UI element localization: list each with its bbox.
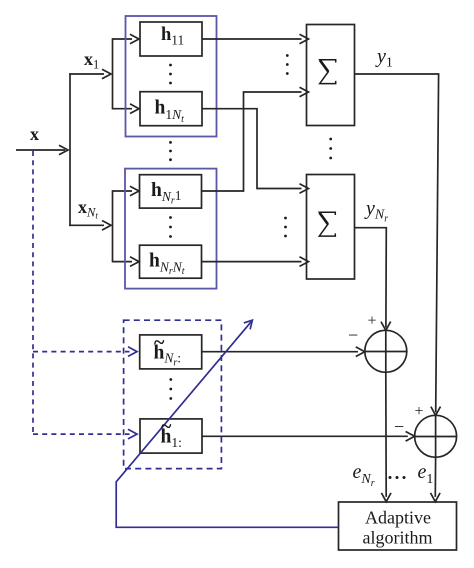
adaptive algorithm box: [339, 502, 457, 550]
wire x input: [16, 145, 68, 155]
svg-text:h11: h11: [161, 25, 184, 48]
svg-text:−: −: [394, 417, 404, 437]
filter h1Nt box: [140, 92, 202, 126]
wire into hNrNt: [113, 257, 140, 267]
label sigma 1: [320, 60, 336, 84]
dots sum2 inputs: [284, 217, 287, 238]
filter bank 2 frame (blue): [125, 169, 217, 289]
filter bank 1 frame (blue): [126, 16, 217, 137]
filter hNrNt box: [140, 245, 202, 278]
dots between htNr and ht1: [169, 378, 172, 400]
svg-text:yNr: yNr: [364, 198, 388, 225]
wire htNr to adder A1: [202, 347, 365, 357]
node x1 junction vertical: [112, 38, 114, 109]
svg-text:x: x: [30, 124, 39, 144]
wire hNr1 to sum1: [202, 87, 309, 191]
wire yNr output: [355, 228, 391, 331]
svg-text:e1: e1: [418, 461, 434, 487]
dots between sum1 and sum2: [329, 138, 332, 160]
svg-text:x1: x1: [84, 49, 99, 72]
dots sum1 inputs: [286, 54, 289, 75]
wire y1 output: [355, 74, 441, 415]
svg-text:hNr1: hNr1: [151, 180, 182, 207]
wire adder A2 to adaptive algorithm (e1): [431, 457, 441, 501]
filter ht1 box: [140, 419, 202, 453]
wire ht1 to adder A2: [202, 432, 415, 442]
adder A2 cross: [415, 415, 457, 457]
wire dashed into ht1: [33, 429, 137, 439]
wire into hNr1: [113, 186, 140, 196]
label sigma 2: [319, 212, 335, 236]
svg-text:eNr: eNr: [353, 461, 375, 489]
dots between h11 and h1Nt: [169, 64, 172, 85]
svg-text:algorithm: algorithm: [363, 528, 433, 548]
svg-text:hNr:: hNr:: [154, 343, 182, 369]
wire xNt branch: [69, 221, 111, 231]
svg-text:y1: y1: [375, 46, 393, 71]
svg-text:hNrNt: hNrNt: [149, 251, 185, 278]
adder A1 cross: [365, 330, 407, 372]
filter htNr box: [140, 335, 202, 369]
adder circle A2: [415, 415, 457, 457]
svg-text:xNt: xNt: [78, 197, 98, 221]
wire adder A1 to adaptive algorithm (eNr): [381, 372, 391, 502]
svg-text:h1Nt: h1Nt: [155, 98, 185, 125]
svg-text:+: +: [368, 313, 377, 330]
svg-text:Adaptive: Adaptive: [365, 508, 431, 528]
wire hNrNt to sum2: [202, 257, 309, 267]
wire x to adaptive filters (blue dashed vertical): [32, 151, 34, 434]
wire adaptive algorithm feedback (blue): [116, 320, 338, 527]
dots between hNr1 and hNrNt: [169, 216, 172, 238]
filter h11 box: [140, 22, 202, 56]
svg-text:h1:: h1:: [161, 427, 182, 451]
summation block sum2: [307, 175, 355, 280]
dots between bank1 and bank2: [169, 141, 172, 161]
filter hNr1 box: [140, 175, 202, 208]
svg-text:+: +: [415, 403, 424, 420]
adder circle A1: [365, 330, 407, 372]
adaptive filter bank frame (blue dashed): [124, 320, 222, 468]
wire x1 branch: [69, 69, 111, 79]
node xNt junction vertical: [112, 190, 114, 262]
wire h1Nt to sum2: [202, 109, 309, 194]
wire dashed into htNr: [33, 347, 137, 357]
node x split vertical: [69, 73, 71, 226]
summation block sum1: [307, 25, 355, 126]
wire h11 to sum1: [202, 34, 309, 44]
wire into h11: [113, 34, 140, 44]
wire into h1Nt: [113, 104, 140, 114]
svg-text:−: −: [348, 325, 358, 345]
dots between eNr and e1: [389, 476, 406, 479]
